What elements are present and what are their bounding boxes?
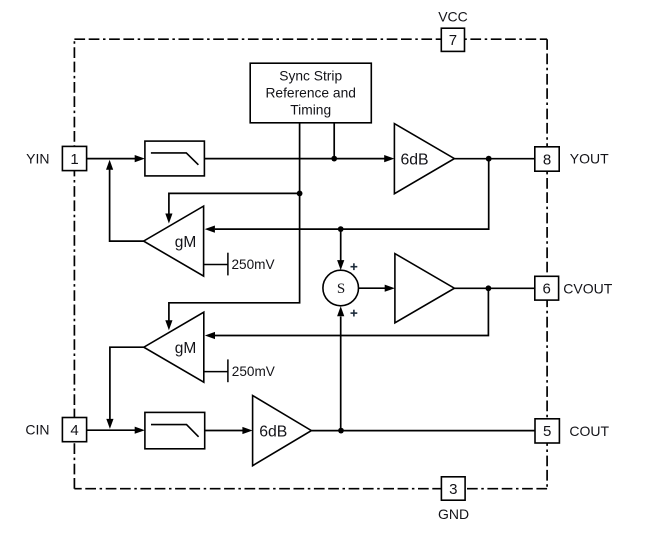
svg-text:6dB: 6dB: [259, 423, 287, 440]
wire 6dB C to pin 5: [311, 430, 535, 432]
svg-text:6dB: 6dB: [400, 151, 428, 168]
transconductance amp gM2: [144, 312, 204, 382]
pin 6 box: [535, 276, 559, 300]
wire gM1 output feedback to YIN node: [110, 169, 144, 241]
wire lowpass Y to 6dB amp: [204, 158, 385, 160]
Sync Strip Reference and Timing block: [250, 63, 371, 123]
svg-text:Timing: Timing: [290, 103, 331, 118]
svg-text:GND: GND: [438, 506, 469, 522]
svg-text:7: 7: [449, 32, 457, 49]
svg-text:gM: gM: [175, 340, 197, 357]
node on Y wire (sync tap): [331, 156, 337, 162]
svg-text:S: S: [337, 281, 345, 297]
wire lowpass C to 6dB C: [205, 430, 244, 432]
transconductance amp gM1: [144, 206, 204, 276]
pin 5 box: [535, 419, 559, 443]
node on gM1 input wire: [338, 226, 344, 232]
pin 4 box: [62, 418, 86, 442]
pin 7 box: [441, 28, 464, 51]
wire YOUT node down to gM1 input: [215, 159, 489, 229]
svg-text:6: 6: [543, 281, 551, 298]
plus top: [351, 263, 358, 270]
svg-text:8: 8: [543, 151, 551, 168]
svg-text:CIN: CIN: [25, 422, 49, 438]
wire node down to summer top: [340, 229, 342, 261]
svg-text:YIN: YIN: [26, 151, 49, 167]
node CVOUT branch: [486, 285, 492, 291]
lowpass filter Y: [145, 141, 205, 176]
op-amp 6dB Y: [394, 124, 454, 194]
svg-text:COUT: COUT: [569, 423, 609, 439]
node on sync left leg: [297, 191, 303, 197]
wire COUT node up to summer bottom: [340, 317, 342, 431]
svg-text:gM: gM: [175, 234, 197, 251]
node YOUT branch: [486, 156, 492, 162]
plus bottom: [351, 310, 358, 317]
op-amp 6dB C: [253, 396, 312, 466]
wire CV amp to pin 6: [454, 287, 534, 289]
svg-text:3: 3: [449, 481, 457, 498]
svg-text:4: 4: [70, 422, 78, 439]
IC boundary (dashed): [74, 39, 547, 489]
op-amp CV: [395, 254, 455, 323]
svg-text:250mV: 250mV: [232, 257, 275, 272]
pin 8 box: [535, 147, 559, 171]
svg-text:CVOUT: CVOUT: [563, 280, 612, 296]
reference tick 250mV gM1: [204, 253, 275, 276]
lowpass filter C: [145, 412, 205, 448]
svg-text:VCC: VCC: [438, 9, 468, 25]
svg-text:YOUT: YOUT: [570, 151, 609, 167]
summer S: [323, 270, 359, 306]
wire gM2 output feedback to CIN node: [110, 347, 144, 420]
svg-text:250mV: 250mV: [232, 364, 275, 379]
wire 6dB Y to pin 8: [454, 158, 534, 160]
reference tick 250mV gM2: [204, 359, 275, 382]
wire node to gM1 top input: [169, 193, 300, 214]
wire YIN to lowpass: [87, 158, 137, 160]
wire summer to CV amp: [359, 287, 386, 289]
wire CVOUT node down to gM2 input: [215, 288, 489, 335]
wire sync left leg down: [169, 123, 300, 322]
svg-text:Sync Strip: Sync Strip: [279, 69, 342, 84]
pin 1 box: [62, 146, 86, 170]
wire CIN to lowpass C: [87, 429, 137, 431]
wire sync right leg to Y wire: [333, 123, 335, 159]
pin 3 box: [441, 477, 465, 500]
node COUT branch: [338, 428, 344, 434]
svg-text:Reference and: Reference and: [265, 86, 356, 101]
svg-text:1: 1: [70, 151, 78, 168]
svg-text:5: 5: [543, 423, 551, 440]
